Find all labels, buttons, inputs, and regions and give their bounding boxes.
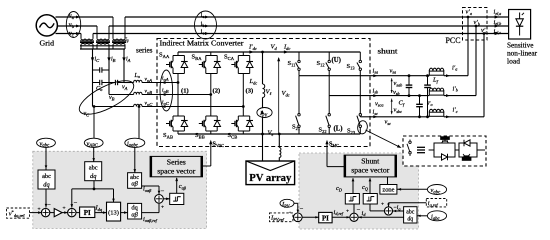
svg-text:space vector: space vector <box>157 168 196 176</box>
svg-text:Lo: Lo <box>134 73 141 79</box>
svg-text:−: − <box>161 188 165 195</box>
svg-text:zone: zone <box>382 188 394 194</box>
svg-text:dq: dq <box>90 173 97 180</box>
svg-text:αβ: αβ <box>131 211 138 218</box>
svg-text:ioA: ioA <box>162 76 169 82</box>
svg-text:non-linear: non-linear <box>507 50 538 58</box>
svg-text:abc: abc <box>89 165 98 172</box>
svg-text:PI: PI <box>84 209 91 217</box>
svg-text:voC: voC <box>145 101 154 107</box>
svg-text:PI: PI <box>322 215 329 223</box>
svg-text:Grid: Grid <box>40 39 55 48</box>
svg-text:voB: voB <box>145 89 153 95</box>
svg-text:ia: ia <box>201 13 205 19</box>
svg-text:−: − <box>300 206 304 213</box>
svg-text:+: + <box>38 207 41 213</box>
svg-text:PCC: PCC <box>446 35 461 45</box>
svg-text:(2): (2) <box>213 88 221 95</box>
svg-text:vA: vA <box>122 85 128 91</box>
svg-text:−: − <box>47 202 51 209</box>
svg-text:ib: ib <box>201 22 206 28</box>
svg-text:Indirect Matrix Converter: Indirect Matrix Converter <box>160 39 245 47</box>
svg-text:dq: dq <box>407 216 413 222</box>
svg-text:−: − <box>74 200 78 207</box>
svg-text:+: + <box>381 202 384 208</box>
svg-text:iA: iA <box>126 57 131 63</box>
svg-text:ioC: ioC <box>162 100 170 106</box>
svg-text:iB: iB <box>111 57 116 63</box>
svg-text:Shunt: Shunt <box>361 158 379 166</box>
svg-text:series: series <box>136 48 153 55</box>
svg-text:Sensitive: Sensitive <box>507 42 534 50</box>
svg-text:vb: vb <box>69 22 75 28</box>
svg-text:αβ: αβ <box>131 181 138 188</box>
svg-text:va: va <box>69 14 74 20</box>
svg-text:vc: vc <box>69 31 74 37</box>
svg-text:(3): (3) <box>246 88 254 95</box>
svg-text:PV array: PV array <box>249 173 291 184</box>
svg-text:abc: abc <box>42 173 51 180</box>
svg-text:−: − <box>357 207 361 214</box>
svg-text:voA: voA <box>145 77 153 83</box>
svg-text:ic: ic <box>201 29 205 35</box>
svg-text:(L): (L) <box>334 126 343 133</box>
svg-text:+: + <box>63 206 66 212</box>
svg-text:+: + <box>161 205 164 211</box>
svg-text:(1): (1) <box>181 88 189 95</box>
svg-text:dq: dq <box>43 181 50 188</box>
svg-text:(13): (13) <box>108 210 119 217</box>
svg-text:vB: vB <box>109 95 115 101</box>
svg-text:(U): (U) <box>332 57 341 64</box>
svg-text:load: load <box>507 58 521 66</box>
svg-text:+: + <box>346 209 349 215</box>
svg-text:−iq: −iq <box>394 205 401 211</box>
svg-text:shunt: shunt <box>378 49 398 56</box>
svg-text:Series: Series <box>167 159 186 167</box>
svg-text:space vector: space vector <box>351 167 390 175</box>
svg-text:ioB: ioB <box>162 88 169 94</box>
svg-text:abc: abc <box>406 209 414 215</box>
